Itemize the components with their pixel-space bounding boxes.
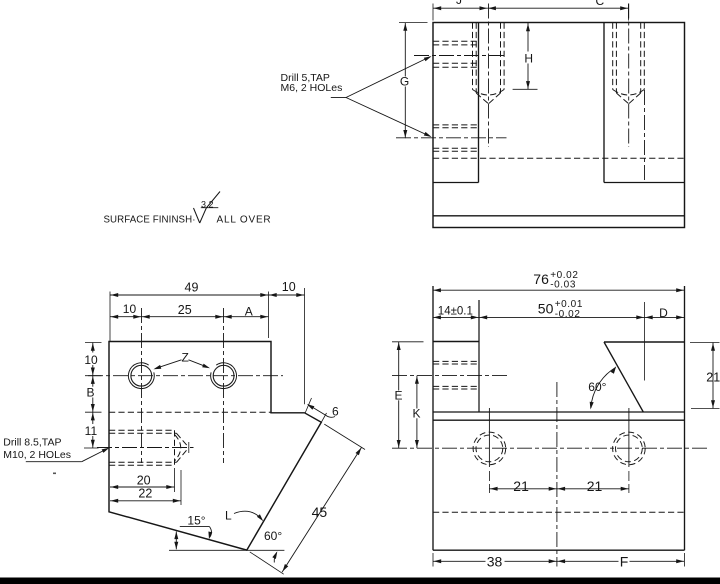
svg-text:38: 38 xyxy=(487,553,503,569)
top view: right slot centerline xyxy=(644,90,646,183)
side view: boss right edge xyxy=(478,300,480,412)
front view: M10 hole tip vertical tick xyxy=(188,442,190,453)
svg-text:10: 10 xyxy=(123,302,137,316)
dimension 6 line with arrow and hook to text xyxy=(308,405,326,416)
bottom black bar xyxy=(0,578,720,584)
top view: left slot right edge xyxy=(478,23,480,183)
svg-text:J: J xyxy=(456,0,462,7)
top view: lower M10 hole hidden thread lines xyxy=(433,124,479,126)
dimension 21 right (hole spacing) xyxy=(557,488,629,490)
svg-text:20: 20 xyxy=(137,473,151,487)
svg-text:15°: 15° xyxy=(187,514,205,528)
horizontal reference line at bottom vertex xyxy=(169,549,284,551)
side view: boss hidden drill lines xyxy=(433,363,479,365)
dimension 21 left (hole spacing) xyxy=(489,488,557,490)
svg-text:M6, 2 HOLes: M6, 2 HOLes xyxy=(281,82,343,94)
top view: lower M10 hole hidden drill lines xyxy=(433,127,479,129)
front view: part outline xyxy=(109,342,321,551)
svg-text:C: C xyxy=(596,0,605,8)
svg-text:K: K xyxy=(412,406,420,420)
top view: upper M10 hole hidden drill lines xyxy=(433,44,479,46)
side view: left edge (with extension to dims) xyxy=(432,286,434,550)
top view: upper M10 hole axis centerline xyxy=(414,55,507,57)
top view: upper M10 hole hidden thread lines xyxy=(433,40,479,42)
svg-text:22: 22 xyxy=(138,487,152,501)
top view: M6 hole drill point cone at x=628.7 xyxy=(616,93,628,104)
side view: boss hidden thread lines xyxy=(433,360,479,362)
dimension F (bottom) xyxy=(557,560,685,562)
side view: shelf line upper xyxy=(433,411,685,413)
svg-text:Drill 8.5,TAP: Drill 8.5,TAP xyxy=(3,437,61,449)
svg-text:Z: Z xyxy=(182,351,189,365)
side view: bottom edge xyxy=(433,549,685,551)
svg-text:76: 76 xyxy=(533,271,549,287)
side view: 60 degree slant edge xyxy=(604,342,643,412)
front view: M10 hole drill point cone dashed xyxy=(177,433,189,447)
top view: M6 hole drill point cone at x=488.5 xyxy=(476,93,488,104)
15 degree vertical double arrow xyxy=(175,532,177,550)
top view: M6 hole thread-bottom dashed arc at x=488.5 xyxy=(473,90,505,96)
side view: hole vertical centerline at x=628.9 xyxy=(628,408,630,467)
dimension 10 (front view top right) xyxy=(269,294,305,296)
svg-text:21: 21 xyxy=(706,370,720,384)
top view: M6 tapped hole thread dashed lines at x=488.5 xyxy=(472,23,474,90)
svg-text:45: 45 xyxy=(312,504,328,520)
dimension D xyxy=(645,316,685,318)
dimension 38 (bottom) xyxy=(432,553,434,567)
front view: hidden dashed step line xyxy=(109,411,271,413)
front view: M10 hole thread bottom dashed arc xyxy=(175,435,181,462)
svg-text:ALL OVER: ALL OVER xyxy=(217,215,272,226)
svg-text:D: D xyxy=(659,306,668,320)
dimension 45 line xyxy=(282,447,362,572)
dimension 45 (bevel edge length) extension lines xyxy=(324,424,365,449)
front view: horizontal hole axis centerline xyxy=(88,375,283,377)
front view: hole 1 vertical centerline xyxy=(141,308,143,463)
svg-text:25: 25 xyxy=(178,303,192,317)
top view: right slot bottom edge xyxy=(604,182,685,184)
top view: M6 tapped hole drill dashed lines at x=628.7 xyxy=(615,23,617,94)
svg-text:10: 10 xyxy=(84,353,98,367)
dimension J (top, left part) xyxy=(432,4,434,21)
dimension 10 (left vertical) xyxy=(92,343,94,376)
dimension C (top) xyxy=(488,7,629,9)
side view: right edge (with extension to dims) xyxy=(684,286,686,550)
dimension 25 (second row) xyxy=(142,316,224,318)
front view: hole 2 thread arc xyxy=(211,363,237,389)
svg-text:F: F xyxy=(620,553,629,569)
svg-text:14±0.1: 14±0.1 xyxy=(438,305,473,317)
svg-text:11: 11 xyxy=(85,424,98,438)
dimension 76 +0.02/-0.03 (overall width) xyxy=(433,289,685,291)
svg-text:E: E xyxy=(394,388,402,402)
dimension B (left vertical) xyxy=(92,376,94,413)
svg-text:21: 21 xyxy=(587,478,603,494)
side view: hidden hole circles at x=489.4 xyxy=(473,432,506,465)
svg-text:SURFACE FININSH·: SURFACE FININSH· xyxy=(104,215,196,226)
side view: hidden hole circles at x=628.9 xyxy=(613,432,646,465)
dimension G (vertical, left of top view) xyxy=(399,22,428,24)
front view: hole 1 (tapped) drill circle xyxy=(131,365,152,386)
side view: long horizontal hole axis centerline xyxy=(392,447,708,449)
dimension A (second row) xyxy=(224,316,269,318)
front view: hole 2 (tapped) drill circle xyxy=(213,365,234,386)
stray dot mark xyxy=(53,473,56,475)
top view: right slot left edge xyxy=(603,23,605,183)
side view: boss hole axis centerline (K top extension) xyxy=(392,375,509,377)
front view: M10 hole thread end dashed line xyxy=(174,430,176,465)
side view: shelf line lower xyxy=(433,419,685,421)
svg-text:B: B xyxy=(86,386,94,400)
svg-text:M10, 2 HOLes: M10, 2 HOLes xyxy=(3,449,71,461)
front view: M10 side tapped hole hidden thread lines xyxy=(109,429,175,431)
left vertical dimension chain ticks xyxy=(85,342,102,344)
svg-text:60°: 60° xyxy=(264,529,282,543)
side view: vertical center line xyxy=(556,382,558,567)
svg-text:10: 10 xyxy=(282,280,296,294)
top view: left slot bottom edge xyxy=(433,182,479,184)
dimension 6 (bevel face width) extension line xyxy=(305,398,311,413)
svg-text:H: H xyxy=(524,52,533,66)
top view: M6 tapped hole centerline at x=488.5 xyxy=(488,4,490,148)
extension line for 50/D dims xyxy=(644,302,646,381)
svg-text:6: 6 xyxy=(332,405,339,419)
front view: M10 hole axis centerline xyxy=(97,447,194,449)
top view: M6 tapped hole drill dashed lines at x=488.5 xyxy=(475,23,477,94)
svg-text:60°: 60° xyxy=(588,380,606,394)
dimension 50 +0.01/-0.02 xyxy=(479,316,645,318)
svg-text:L: L xyxy=(225,509,232,523)
dimension 11 (left vertical) xyxy=(92,412,94,448)
dimension H (inside top view) xyxy=(527,23,529,89)
dimension 20 (M10 thread depth) xyxy=(174,468,176,492)
side view: hole vertical centerline at x=489.4 xyxy=(488,408,490,467)
svg-text:49: 49 xyxy=(185,280,199,294)
top view: lower M10 hole axis centerline (also G dim extension) xyxy=(396,137,507,139)
front view: hole 1 thread arc xyxy=(128,363,154,389)
side view: hidden dashed line near bottom xyxy=(433,511,685,513)
svg-text:G: G xyxy=(400,75,409,89)
dimension 10 (second row left) xyxy=(110,316,142,318)
front view: hole 2 vertical centerline xyxy=(223,308,225,463)
surface finish symbol triangle with flick xyxy=(194,208,200,223)
top view: outer rectangle of block xyxy=(433,23,685,228)
top view: M6 hole thread-bottom dashed arc at x=628.7 xyxy=(613,90,645,96)
svg-text:-0.02: -0.02 xyxy=(555,309,581,320)
dimension 49 (front view top) xyxy=(109,292,111,342)
dimension 22 (M10 drill depth) xyxy=(180,470,182,505)
side view: top-right section top edge xyxy=(604,341,685,343)
svg-text:50: 50 xyxy=(538,301,554,317)
top view: lower horizontal edge line xyxy=(433,215,685,217)
dimension 14 +-0.1 (boss width) xyxy=(433,316,479,318)
svg-text:A: A xyxy=(245,305,253,319)
side view: boss top edge xyxy=(433,341,479,343)
front view: M10 side hole hidden drill lines xyxy=(109,432,177,434)
dimension 21 (right side height) xyxy=(690,342,720,344)
top view: long hidden dashed line xyxy=(433,157,685,159)
svg-text:-0.03: -0.03 xyxy=(550,279,576,290)
top view: M6 tapped hole thread dashed lines at x=628.7 xyxy=(612,23,614,90)
top view: M6 tapped hole centerline at x=628.7 xyxy=(628,4,630,148)
dimension K (left vertical) xyxy=(416,376,418,449)
dimension E (left vertical) xyxy=(392,341,424,343)
svg-text:21: 21 xyxy=(513,478,529,494)
